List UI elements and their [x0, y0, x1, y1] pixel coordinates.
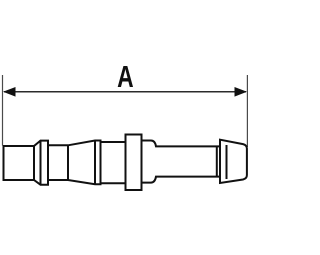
edge: ring1 right [47, 141, 49, 185]
edge: tube/taper boundary [33, 146, 35, 180]
extension line right [246, 75, 248, 147]
edge: collar left [125, 135, 127, 191]
arrowhead right [235, 87, 248, 97]
edge: neck/cone boundary [67, 145, 69, 180]
arrowhead left [3, 87, 16, 97]
edge: taper/ring1 boundary [40, 141, 42, 185]
edge: ring2 right [100, 141, 102, 185]
edge: cone end [94, 141, 96, 185]
edge: collar right [141, 135, 143, 191]
dimension line A [4, 91, 246, 93]
fitting body outline [4, 135, 247, 191]
edge: barb cone line [226, 145, 228, 179]
extension line left [2, 75, 4, 146]
edge: shank end cap [216, 146, 218, 176]
svg-text:A: A [117, 60, 134, 94]
edge: barb back face [219, 140, 221, 183]
